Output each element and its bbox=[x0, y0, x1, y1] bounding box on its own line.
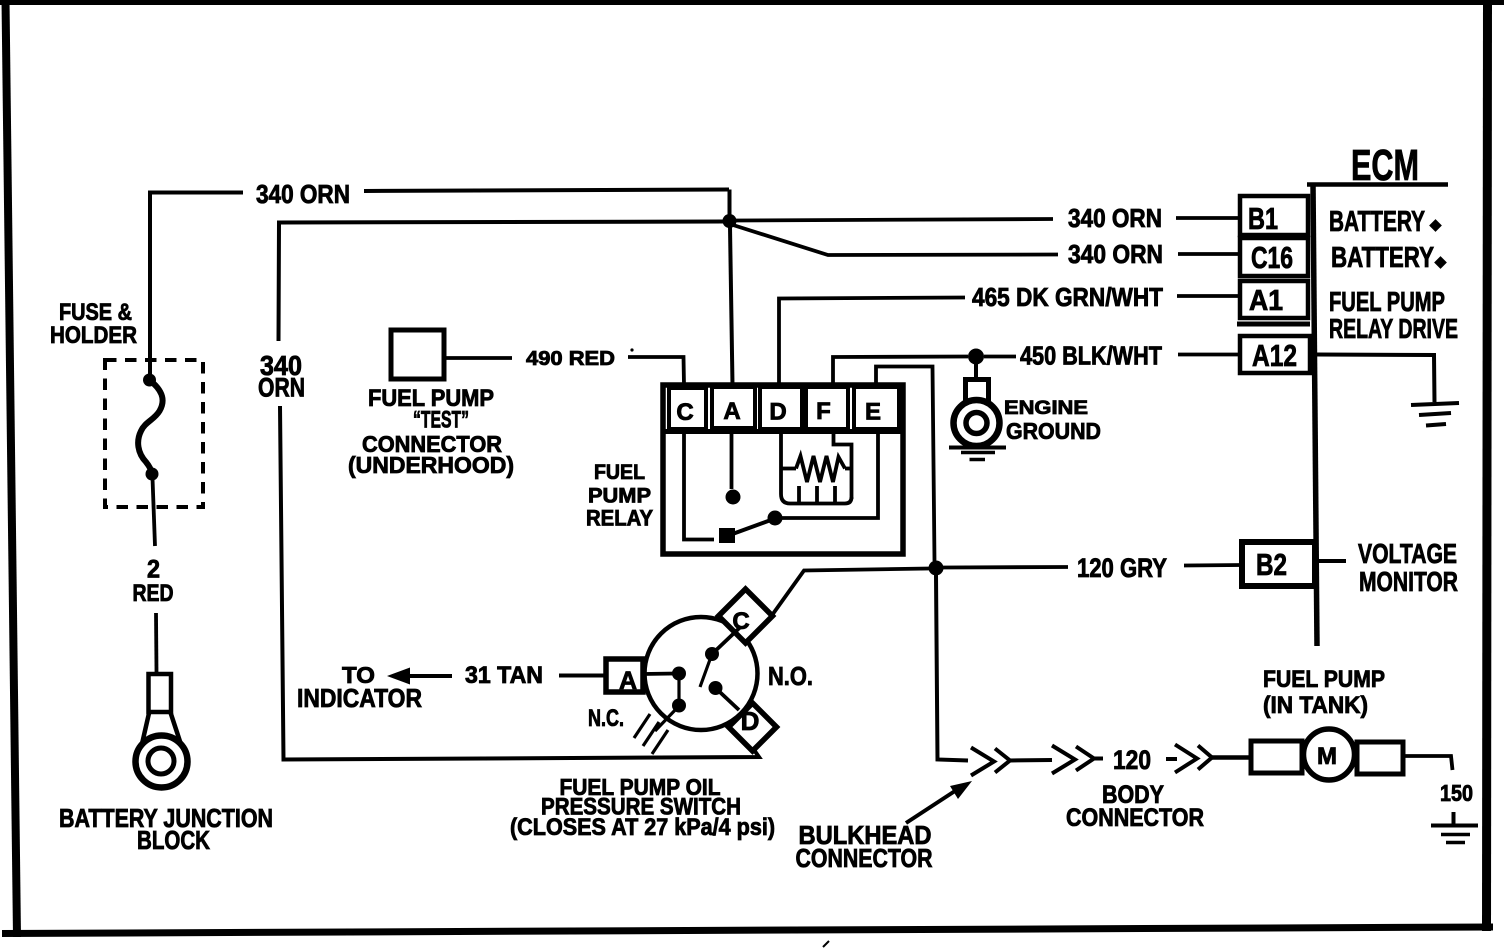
relay terminal box F bbox=[806, 387, 848, 429]
svg-text:(CLOSES AT 27 kPa/4 psi): (CLOSES AT 27 kPa/4 psi) bbox=[510, 814, 775, 841]
relay switch lever bbox=[727, 519, 775, 537]
pressure switch A to NC link bbox=[677, 674, 680, 705]
label ENGINE GROUND bbox=[1004, 398, 1101, 444]
relay terminal box A bbox=[712, 387, 755, 428]
label BULKHEAD CONNECTOR bbox=[796, 820, 933, 873]
fuel pump relay outer box bbox=[663, 385, 903, 554]
svg-text:HOLDER: HOLDER bbox=[50, 322, 137, 349]
label BATTERY + (B1) bbox=[1329, 206, 1442, 238]
wire 450 BLK/WHT bbox=[833, 355, 1241, 386]
relay terminal box E bbox=[854, 387, 899, 429]
engine ground ring terminal bbox=[954, 380, 1000, 447]
bulkhead connector chevrons bbox=[971, 748, 1010, 776]
label FUEL PUMP RELAY bbox=[586, 461, 653, 531]
fuel pump motor left terminal bbox=[1251, 741, 1302, 773]
relay terminal row underline bbox=[665, 429, 903, 434]
border frame right bbox=[1487, 0, 1488, 931]
svg-text:FUEL: FUEL bbox=[594, 461, 645, 484]
pressure switch terminal C diamond bbox=[719, 589, 773, 643]
svg-text:(UNDERHOOD): (UNDERHOOD) bbox=[348, 452, 514, 478]
svg-text:A: A bbox=[619, 667, 637, 695]
relay terminal box C bbox=[669, 388, 706, 429]
ECM pin box C16 bbox=[1240, 238, 1308, 276]
pressure switch contact dot NC bbox=[672, 699, 686, 713]
label BATTERY + (C16) bbox=[1331, 242, 1447, 274]
ground symbol A12 bbox=[1411, 403, 1459, 426]
wire 340 ORN to ECM B1 bbox=[736, 218, 1241, 221]
wire junction node 120 GRY bbox=[929, 561, 944, 576]
pressure switch contact dot A bbox=[672, 667, 686, 681]
svg-text:120 GRY: 120 GRY bbox=[1077, 553, 1167, 583]
svg-text:340 ORN: 340 ORN bbox=[256, 179, 350, 209]
svg-text:VOLTAGE: VOLTAGE bbox=[1358, 538, 1457, 569]
svg-text:N.O.: N.O. bbox=[768, 661, 813, 691]
pressure switch terminal D diamond bbox=[729, 703, 777, 751]
fuel pump motor M circle bbox=[1304, 729, 1355, 780]
pressure switch terminal A box bbox=[606, 659, 643, 695]
fuel pump motor right terminal bbox=[1357, 742, 1403, 774]
svg-text:465 DK GRN/WHT: 465 DK GRN/WHT bbox=[972, 282, 1163, 312]
wire junction node 450 bbox=[968, 349, 984, 365]
border frame bottom bbox=[2, 927, 1493, 934]
svg-text:C: C bbox=[676, 399, 693, 426]
svg-text:M: M bbox=[1317, 743, 1337, 770]
ECM pin box B1 bbox=[1240, 196, 1308, 236]
relay internal wire from C to fixed contact bbox=[684, 431, 714, 540]
wire 340 ORN from fuse up and right bbox=[150, 190, 730, 381]
border frame left bbox=[6, 0, 18, 937]
wire fuse to battery junction block bbox=[153, 478, 157, 672]
label BODY CONNECTOR bbox=[1066, 781, 1204, 832]
svg-text:31 TAN: 31 TAN bbox=[465, 662, 543, 689]
svg-text:MONITOR: MONITOR bbox=[1359, 566, 1458, 597]
wire E terminal to junction bbox=[876, 367, 935, 562]
svg-text:CONNECTOR: CONNECTOR bbox=[796, 843, 933, 873]
stray mark below bottom border bbox=[823, 941, 829, 947]
label TO INDICATOR bbox=[297, 662, 422, 713]
svg-text:450 BLK/WHT: 450 BLK/WHT bbox=[1020, 341, 1162, 371]
relay lever contact dot bbox=[768, 511, 783, 526]
svg-text:490 RED: 490 RED bbox=[526, 348, 615, 370]
wire 340 ORN left vertical down to pressure switch bottom bbox=[280, 406, 759, 760]
label BATTERY JUNCTION BLOCK bbox=[59, 803, 273, 855]
wire junction to relay terminal A bbox=[730, 227, 733, 385]
svg-text:INDICATOR: INDICATOR bbox=[297, 683, 422, 713]
svg-text:RELAY: RELAY bbox=[586, 506, 653, 531]
label FUSE & HOLDER bbox=[50, 299, 137, 349]
ECM pin box A12 bbox=[1240, 336, 1310, 373]
fuse element bbox=[138, 374, 162, 481]
label FUEL PUMP RELAY DRIVE bbox=[1329, 286, 1458, 344]
wire 340 ORN to ECM C16 bbox=[733, 225, 1241, 255]
svg-text:340 ORN: 340 ORN bbox=[1068, 203, 1162, 233]
ECM separator line bbox=[1237, 322, 1310, 327]
body connector chevrons 2 bbox=[1166, 745, 1212, 773]
svg-text:150: 150 bbox=[1440, 780, 1473, 806]
label FUEL PUMP OIL PRESSURE SWITCH bbox=[510, 774, 775, 841]
label 340 ORN vertical wire bbox=[258, 350, 305, 403]
pressure switch NO blade bbox=[700, 654, 712, 687]
pressure switch NC hatch marks bbox=[634, 714, 668, 754]
fuel pump test connector square bbox=[391, 330, 444, 379]
battery junction block ring terminal bbox=[136, 674, 188, 788]
wire between connectors bbox=[1010, 758, 1052, 763]
svg-text:F: F bbox=[816, 398, 831, 425]
svg-text:BATTERY: BATTERY bbox=[1329, 206, 1425, 238]
svg-text:C16: C16 bbox=[1251, 240, 1293, 275]
svg-text:D: D bbox=[769, 399, 786, 426]
svg-text:E: E bbox=[865, 399, 881, 426]
wire 120 GRY to ECM B2 bbox=[943, 565, 1242, 568]
ECM pin box B2 bbox=[1242, 542, 1315, 586]
svg-text:PUMP: PUMP bbox=[588, 485, 651, 508]
label VOLTAGE MONITOR bbox=[1358, 538, 1458, 597]
wire A12 to ground bbox=[1316, 355, 1435, 403]
wire B2 to voltage monitor bbox=[1319, 559, 1346, 563]
body connector chevrons 1 bbox=[1052, 746, 1103, 774]
relay coil bbox=[781, 433, 852, 504]
label FUEL PUMP (IN TANK) bbox=[1263, 666, 1385, 719]
wire 31 TAN with arrow to indicator bbox=[387, 668, 606, 685]
svg-text:A12: A12 bbox=[1252, 338, 1297, 373]
wire to fuel pump bbox=[1212, 755, 1251, 760]
pressure switch D lead bbox=[716, 688, 740, 710]
svg-text:B1: B1 bbox=[1248, 201, 1278, 236]
svg-text:A1: A1 bbox=[1249, 285, 1283, 317]
svg-text:D: D bbox=[741, 706, 760, 736]
pressure switch contact A lead bbox=[643, 672, 676, 676]
wire junction down to bulkhead connector bbox=[936, 575, 968, 761]
label 2 RED bbox=[133, 556, 174, 608]
svg-text:FUEL PUMP: FUEL PUMP bbox=[1263, 666, 1385, 693]
wire engine ground stub bbox=[974, 362, 978, 379]
svg-text:BLOCK: BLOCK bbox=[137, 825, 210, 855]
pressure switch NC lead bbox=[655, 707, 678, 731]
svg-text:ENGINE: ENGINE bbox=[1004, 398, 1088, 419]
fuse holder dashed box bbox=[105, 360, 203, 507]
svg-text:“TEST”: “TEST” bbox=[413, 407, 469, 434]
label FUEL PUMP TEST CONNECTOR (UNDERHOOD) bbox=[348, 385, 514, 478]
wire pressure switch C to junction bbox=[773, 569, 930, 615]
pressure switch contact dot C bbox=[705, 647, 719, 661]
svg-text:N.C.: N.C. bbox=[588, 705, 624, 732]
ECM main vertical line bbox=[1313, 184, 1317, 646]
engine ground symbol bbox=[949, 448, 1006, 460]
wire junction node 340 ORN bbox=[723, 214, 737, 228]
svg-text:CONNECTOR: CONNECTOR bbox=[1066, 804, 1204, 832]
svg-text:RED: RED bbox=[133, 580, 174, 607]
relay internal wire from A to pivot bbox=[730, 431, 734, 489]
bulkhead connector pointer arrow bbox=[906, 781, 972, 823]
relay terminal box D bbox=[760, 387, 802, 429]
ground symbol 150 bbox=[1431, 812, 1478, 843]
wire 465 DK GRN/WHT bbox=[779, 296, 1241, 385]
svg-text:ORN: ORN bbox=[258, 373, 305, 403]
relay pivot contact dot bbox=[726, 490, 741, 505]
svg-text:340 ORN: 340 ORN bbox=[1068, 239, 1163, 269]
ECM top line bbox=[1307, 182, 1448, 187]
wire 490 RED bbox=[444, 348, 684, 385]
ECM pin box A1 bbox=[1240, 281, 1308, 318]
relay fixed contact square bbox=[719, 528, 735, 543]
svg-text:BATTERY: BATTERY bbox=[1331, 242, 1434, 274]
svg-text:GROUND: GROUND bbox=[1006, 418, 1101, 444]
pressure switch C lead bbox=[712, 627, 741, 655]
svg-text:(IN TANK): (IN TANK) bbox=[1263, 692, 1368, 719]
relay internal wire lever to E bbox=[781, 431, 878, 518]
pressure switch contact dot D bbox=[709, 681, 723, 695]
wire fuel pump to ground 150 bbox=[1403, 756, 1453, 770]
wire 340 ORN junction to left vertical bbox=[279, 222, 725, 342]
pressure switch body circle bbox=[645, 617, 758, 730]
border frame top bbox=[0, 0, 1504, 5]
svg-text:120: 120 bbox=[1113, 745, 1151, 775]
svg-text:RELAY DRIVE: RELAY DRIVE bbox=[1329, 313, 1458, 344]
svg-text:A: A bbox=[723, 398, 740, 425]
svg-text:B2: B2 bbox=[1256, 547, 1287, 582]
